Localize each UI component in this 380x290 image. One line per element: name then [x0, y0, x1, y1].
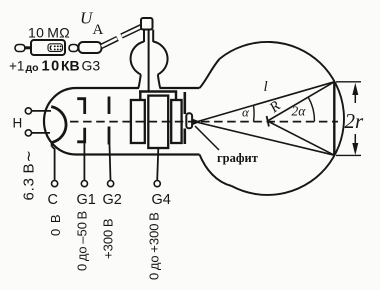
wire (broken cable) to top cap [101, 27, 142, 47]
cathode [51, 107, 66, 147]
top cap G3 terminal [141, 18, 153, 30]
dimension extension lines [336, 82, 361, 156]
cathode lead to pin C [52, 147, 55, 181]
svg-text:+1: +1 [9, 59, 24, 74]
focusing electrode G4 middle cylinder [148, 96, 168, 148]
svg-text:+300 В: +300 В [101, 218, 116, 259]
label U_A (anode voltage) [80, 9, 104, 39]
svg-text:2α: 2α [292, 104, 307, 119]
svg-text:G2: G2 [103, 192, 122, 208]
G3 connection bar [139, 92, 177, 101]
pin G2 terminal [108, 181, 114, 187]
bulb (screen sphere) [220, 42, 344, 195]
tube envelope bottom wall [76, 153, 200, 155]
angle alpha arc [253, 105, 256, 121]
svg-text:A: A [93, 22, 104, 38]
resistor marking dots [48, 44, 63, 52]
resistor R1 10 МОм body [15, 40, 65, 55]
svg-text:графит: графит [217, 151, 258, 165]
beam edge to top of screen [196, 82, 334, 122]
focusing electrode G3 right cylinder [171, 100, 181, 143]
svg-text:10: 10 [42, 59, 61, 75]
G1 lead [83, 142, 85, 181]
pin letters [48, 192, 171, 208]
svg-text:0 до +300 В: 0 до +300 В [147, 212, 162, 280]
svg-text:0 до –50 В: 0 до –50 В [75, 211, 90, 271]
glass stem below cap [144, 30, 153, 43]
screen chord 2r [333, 82, 335, 155]
svg-text:l: l [264, 79, 268, 95]
focusing electrode G3 left cylinder [131, 100, 145, 143]
connector stub and cylinder [69, 42, 102, 53]
beam edge to bottom of screen [196, 122, 334, 155]
G2 lead [110, 145, 111, 181]
neck from bead to envelope [138, 75, 160, 89]
svg-text:0 В: 0 В [48, 213, 63, 236]
tube envelope top wall [76, 87, 200, 89]
lead wire inside stem [148, 30, 150, 92]
svg-text:H: H [13, 116, 23, 131]
axis (dashed center line) [70, 121, 338, 123]
funnel to bulb top [200, 59, 220, 88]
svg-text:α: α [242, 105, 250, 120]
svg-text:C: C [48, 192, 58, 208]
svg-text:G1: G1 [77, 192, 96, 208]
G4 lead [157, 148, 158, 181]
графит pointer line [195, 126, 219, 150]
centre to bottom chord line [268, 121, 335, 155]
pin G4 terminal [154, 181, 160, 187]
heater terminal circles H [25, 108, 31, 136]
angle 2alpha arc [308, 97, 314, 121]
svg-text:10 МΩ: 10 МΩ [28, 25, 70, 41]
anode aperture disc [184, 92, 187, 144]
aperture nipple (графит electrode) [186, 113, 200, 128]
funnel to bulb bottom [200, 155, 232, 187]
svg-text:G3: G3 [82, 58, 101, 74]
svg-text:2r: 2r [345, 109, 365, 133]
grid G2 (accelerator) [108, 97, 111, 145]
heater leads [32, 111, 52, 133]
grid G1 (control) [77, 99, 85, 142]
pin G1 terminal [81, 181, 87, 187]
tube envelope left dome [44, 88, 76, 155]
svg-text:6.3 В∼: 6.3 В∼ [21, 149, 38, 200]
glass bead bulb [131, 42, 168, 75]
label R [266, 98, 284, 117]
radius R line [268, 82, 335, 121]
sphere centre tick [267, 116, 269, 127]
label +1 до 10 КВ G3 [9, 58, 100, 75]
svg-text:до: до [26, 62, 39, 74]
svg-text:G4: G4 [152, 192, 171, 208]
dimension arrows 2r [352, 83, 358, 156]
svg-text:КВ: КВ [61, 58, 80, 74]
pin C terminal [52, 181, 58, 187]
